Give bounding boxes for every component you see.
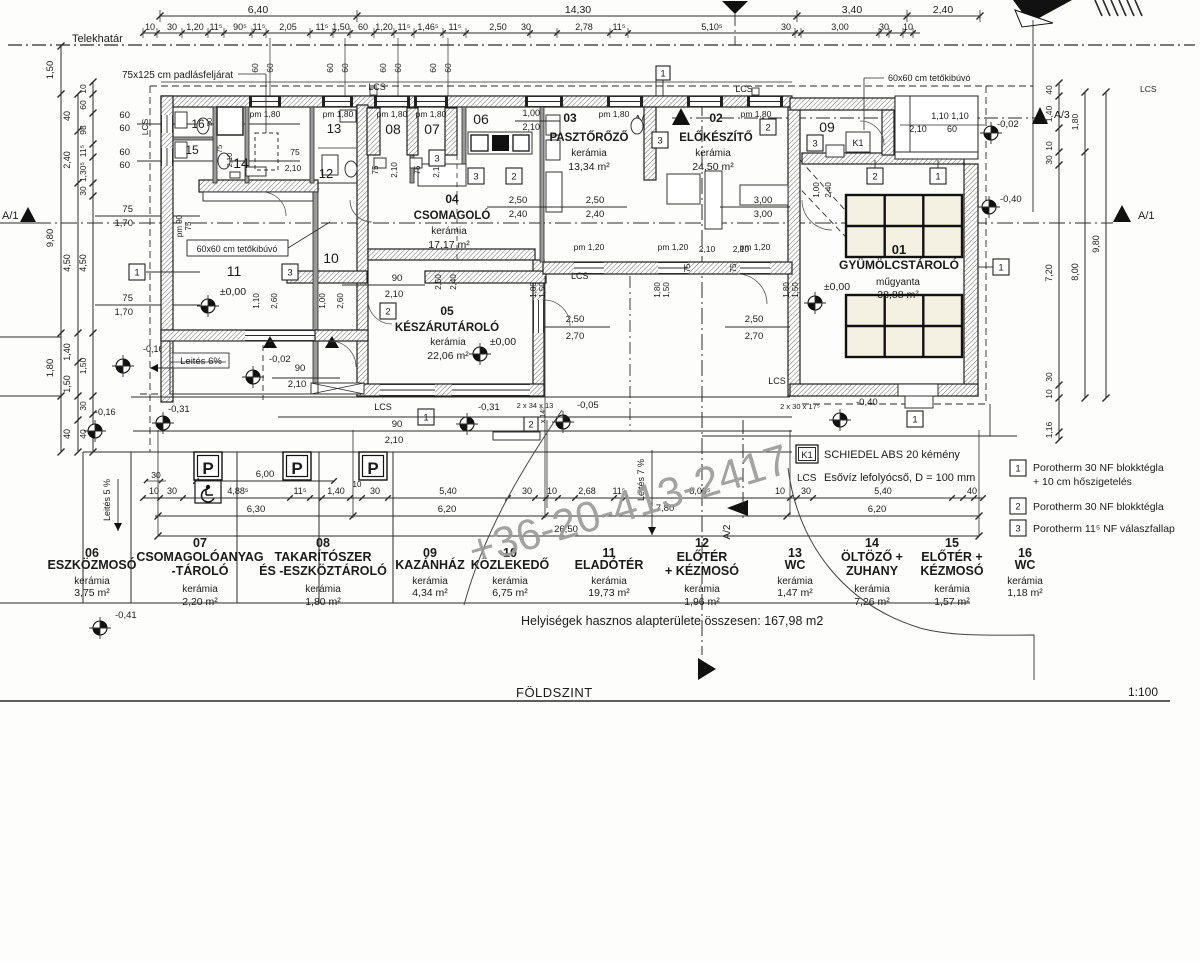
- svg-text:2,70: 2,70: [566, 331, 585, 342]
- svg-text:2: 2: [528, 419, 533, 430]
- svg-text:4,34 m²: 4,34 m²: [412, 587, 448, 599]
- svg-text:-0,02: -0,02: [269, 354, 291, 365]
- svg-text:6,40: 6,40: [248, 4, 269, 16]
- svg-text:12: 12: [319, 166, 333, 181]
- svg-text:1,96 m²: 1,96 m²: [684, 596, 720, 608]
- svg-text:14: 14: [865, 536, 879, 550]
- svg-text:11: 11: [227, 263, 242, 279]
- svg-text:Esővíz lefolyócső, D = 100 mm: Esővíz lefolyócső, D = 100 mm: [824, 472, 975, 484]
- svg-text:1,00: 1,00: [318, 293, 327, 309]
- svg-text:P: P: [202, 459, 213, 478]
- svg-text:±0,00: ±0,00: [490, 336, 516, 348]
- svg-text:90: 90: [392, 419, 403, 430]
- svg-text:műgyanta: műgyanta: [876, 277, 920, 288]
- svg-text:CSOMAGOLÓ: CSOMAGOLÓ: [414, 209, 491, 222]
- svg-text:06: 06: [473, 111, 489, 127]
- svg-text:11⁵: 11⁵: [78, 145, 88, 157]
- svg-text:60: 60: [119, 147, 130, 158]
- svg-text:30: 30: [1044, 372, 1054, 382]
- svg-text:10: 10: [353, 480, 362, 489]
- svg-text:2,20 m²: 2,20 m²: [182, 596, 218, 608]
- svg-text:15: 15: [945, 536, 959, 550]
- svg-text:1,57 m²: 1,57 m²: [934, 596, 970, 608]
- svg-text:-0,41: -0,41: [115, 610, 137, 621]
- svg-text:pm 1,80: pm 1,80: [416, 109, 447, 119]
- svg-text:2,50: 2,50: [489, 22, 507, 32]
- svg-text:5,10⁵: 5,10⁵: [701, 22, 723, 32]
- svg-text:10: 10: [547, 486, 557, 496]
- svg-text:pm 1,80: pm 1,80: [741, 109, 772, 119]
- svg-text:30: 30: [801, 486, 811, 496]
- svg-text:30: 30: [370, 486, 380, 496]
- svg-text:pm 1,80: pm 1,80: [323, 109, 354, 119]
- svg-text:30: 30: [167, 22, 177, 32]
- svg-text:P: P: [367, 459, 378, 478]
- svg-text:pm 1,20: pm 1,20: [574, 242, 605, 252]
- svg-text:kerámia: kerámia: [492, 576, 528, 587]
- svg-text:30: 30: [879, 22, 889, 32]
- svg-text:75: 75: [215, 145, 224, 153]
- svg-text:30: 30: [521, 22, 531, 32]
- svg-text:11⁵: 11⁵: [293, 486, 306, 496]
- svg-text:Porotherm 11⁵ NF válaszfallap: Porotherm 11⁵ NF válaszfallap: [1033, 523, 1175, 535]
- svg-text:2,70: 2,70: [745, 331, 764, 342]
- svg-text:2 x 34 x 13: 2 x 34 x 13: [517, 401, 554, 410]
- svg-text:14,30: 14,30: [565, 4, 591, 16]
- svg-text:4,50: 4,50: [62, 254, 72, 272]
- svg-text:LCS: LCS: [768, 376, 786, 386]
- svg-text:10: 10: [145, 22, 155, 32]
- svg-text:60x60 cm tetőkibúvó: 60x60 cm tetőkibúvó: [888, 73, 971, 83]
- svg-text:P: P: [291, 459, 302, 478]
- svg-text:3: 3: [812, 138, 817, 149]
- svg-text:11⁵: 11⁵: [397, 22, 410, 32]
- svg-text:1,20: 1,20: [186, 22, 204, 32]
- svg-text:11⁵: 11⁵: [209, 22, 222, 32]
- svg-text:30: 30: [781, 22, 791, 32]
- svg-text:ÖLTÖZŐ +: ÖLTÖZŐ +: [841, 549, 903, 564]
- svg-text:1,46⁵: 1,46⁵: [417, 22, 439, 32]
- svg-text:Porotherm 30 NF blokktégla: Porotherm 30 NF blokktégla: [1033, 501, 1164, 513]
- svg-text:K1: K1: [852, 138, 863, 148]
- svg-text:1,40: 1,40: [62, 343, 72, 361]
- svg-text:60: 60: [119, 123, 130, 134]
- svg-text:2: 2: [511, 171, 516, 182]
- svg-text:11⁵: 11⁵: [612, 22, 625, 32]
- svg-text:10: 10: [903, 22, 913, 32]
- svg-text:10: 10: [323, 250, 339, 266]
- svg-text:3: 3: [657, 135, 662, 146]
- svg-text:KÉSZÁRUTÁROLÓ: KÉSZÁRUTÁROLÓ: [395, 321, 499, 334]
- svg-text:LCS: LCS: [140, 118, 150, 135]
- svg-text:5,40: 5,40: [439, 486, 457, 496]
- svg-text:KAZÁNHÁZ: KAZÁNHÁZ: [395, 557, 465, 572]
- svg-text:09: 09: [819, 119, 835, 135]
- svg-text:6,30: 6,30: [247, 504, 266, 515]
- svg-text:TAKARÍTÓSZER: TAKARÍTÓSZER: [275, 549, 372, 564]
- svg-text:4,88⁵: 4,88⁵: [227, 486, 249, 496]
- svg-text:LCS: LCS: [1140, 84, 1157, 94]
- svg-text:-0,05: -0,05: [577, 400, 599, 411]
- svg-text:2,10: 2,10: [285, 163, 302, 173]
- svg-text:2,40: 2,40: [824, 182, 833, 198]
- svg-text:1,80: 1,80: [782, 282, 791, 298]
- svg-text:6,20: 6,20: [438, 504, 457, 515]
- svg-text:kerámia: kerámia: [695, 148, 731, 159]
- svg-text:Porotherm 30 NF blokktégla: Porotherm 30 NF blokktégla: [1033, 462, 1164, 474]
- svg-text:pm 1,80: pm 1,80: [377, 109, 408, 119]
- svg-text:10: 10: [149, 486, 159, 496]
- svg-text:1,70: 1,70: [115, 307, 134, 318]
- svg-text:13,34 m²: 13,34 m²: [568, 161, 610, 173]
- svg-text:Leités 5 %: Leités 5 %: [102, 479, 112, 521]
- svg-text:07: 07: [424, 121, 440, 137]
- svg-text:kerámia: kerámia: [182, 584, 218, 595]
- svg-text:10: 10: [1044, 141, 1054, 151]
- svg-text:A/2: A/2: [722, 524, 733, 539]
- svg-text:LCS: LCS: [571, 271, 589, 281]
- svg-text:2,40: 2,40: [449, 274, 458, 290]
- svg-text:3: 3: [287, 267, 292, 278]
- svg-text:2,10: 2,10: [733, 244, 750, 254]
- svg-text:60: 60: [947, 124, 957, 134]
- svg-text:kerámia: kerámia: [412, 576, 448, 587]
- svg-text:1,47 m²: 1,47 m²: [777, 587, 813, 599]
- svg-text:ELŐTÉR +: ELŐTÉR +: [921, 549, 982, 564]
- svg-text:90: 90: [392, 273, 403, 284]
- svg-text:1,50: 1,50: [45, 61, 56, 80]
- svg-text:1,00: 1,00: [522, 108, 540, 118]
- svg-text:6,20: 6,20: [868, 504, 887, 515]
- svg-text:±0,00: ±0,00: [824, 281, 850, 293]
- svg-text:1: 1: [1015, 463, 1020, 474]
- svg-text:K1: K1: [801, 450, 813, 461]
- svg-text:02: 02: [709, 111, 723, 125]
- svg-text:17,17 m²: 17,17 m²: [428, 239, 470, 251]
- svg-text:2,40: 2,40: [586, 209, 605, 220]
- svg-text:pm 1,80: pm 1,80: [599, 109, 630, 119]
- svg-text:1: 1: [134, 267, 139, 278]
- svg-text:60: 60: [250, 63, 260, 73]
- svg-text:LCS: LCS: [735, 84, 753, 94]
- svg-text:1,30⁵: 1,30⁵: [78, 162, 88, 182]
- svg-text:15: 15: [185, 143, 199, 157]
- svg-text:1,50: 1,50: [78, 357, 88, 374]
- svg-text:A/3: A/3: [1054, 109, 1070, 121]
- svg-text:10: 10: [1044, 389, 1054, 399]
- svg-text:2,50: 2,50: [566, 314, 585, 325]
- svg-text:-0,31: -0,31: [168, 404, 190, 415]
- svg-text:ÉS -ESZKÖZTÁROLÓ: ÉS -ESZKÖZTÁROLÓ: [259, 563, 387, 578]
- svg-text:2,50: 2,50: [745, 314, 764, 325]
- svg-text:±0,00: ±0,00: [220, 286, 246, 298]
- svg-text:75: 75: [413, 165, 422, 174]
- svg-text:LCS: LCS: [797, 473, 817, 484]
- svg-text:1:100: 1:100: [1128, 685, 1158, 699]
- svg-text:07: 07: [193, 536, 207, 550]
- svg-text:1,40: 1,40: [327, 486, 345, 496]
- svg-text:60: 60: [325, 63, 335, 73]
- svg-text:kerámia: kerámia: [431, 226, 467, 237]
- svg-text:1: 1: [935, 171, 940, 182]
- svg-text:08: 08: [316, 536, 330, 550]
- svg-text:1,50: 1,50: [538, 282, 547, 298]
- svg-text:11⁵: 11⁵: [315, 22, 328, 32]
- svg-text:19,73 m²: 19,73 m²: [588, 587, 630, 599]
- svg-text:75: 75: [290, 147, 300, 157]
- svg-text:9,80: 9,80: [1091, 235, 1101, 253]
- svg-text:kerámia: kerámia: [571, 148, 607, 159]
- svg-text:Leités 6%: Leités 6%: [180, 356, 222, 367]
- svg-text:2,10: 2,10: [385, 289, 404, 300]
- svg-text:2,40: 2,40: [62, 151, 72, 169]
- svg-text:2,10: 2,10: [909, 124, 927, 134]
- svg-text:ELŐTÉR: ELŐTÉR: [677, 549, 728, 564]
- svg-text:1,10: 1,10: [931, 111, 949, 121]
- svg-text:75x125 cm padlásfeljárat: 75x125 cm padlásfeljárat: [122, 70, 233, 81]
- svg-text:98: 98: [78, 125, 88, 135]
- svg-text:2,60: 2,60: [270, 293, 279, 309]
- svg-text:1,50: 1,50: [791, 282, 800, 298]
- svg-text:40: 40: [62, 111, 72, 121]
- svg-text:3,40: 3,40: [842, 4, 863, 16]
- svg-text:+ 10 cm hőszigetelés: + 10 cm hőszigetelés: [1033, 476, 1132, 488]
- svg-text:x 14⁵: x 14⁵: [540, 407, 547, 423]
- svg-text:2 x 30 x 17⁵: 2 x 30 x 17⁵: [780, 402, 820, 411]
- svg-text:30: 30: [1044, 155, 1054, 165]
- svg-text:2,50: 2,50: [509, 195, 528, 206]
- svg-text:WC: WC: [785, 558, 806, 572]
- svg-text:75: 75: [683, 263, 692, 272]
- svg-text:30: 30: [522, 486, 532, 496]
- svg-text:Helyiségek hasznos alapterület: Helyiségek hasznos alapterülete összesen…: [521, 614, 823, 628]
- svg-text:4,50: 4,50: [78, 254, 88, 272]
- svg-text:40: 40: [78, 429, 88, 439]
- svg-text:2,40: 2,40: [933, 4, 954, 16]
- svg-text:3,00: 3,00: [754, 195, 773, 206]
- svg-text:1,50: 1,50: [662, 282, 671, 298]
- svg-text:2,05: 2,05: [279, 22, 297, 32]
- svg-text:12: 12: [695, 536, 709, 550]
- svg-text:1: 1: [998, 262, 1003, 273]
- svg-text:5,40: 5,40: [874, 486, 892, 496]
- svg-text:90: 90: [295, 363, 306, 374]
- svg-text:kerámia: kerámia: [854, 584, 890, 595]
- svg-text:60: 60: [119, 110, 130, 121]
- svg-text:ELADÓTÉR: ELADÓTÉR: [575, 557, 644, 572]
- svg-text:ZUHANY: ZUHANY: [846, 564, 899, 578]
- svg-text:3: 3: [1015, 523, 1020, 534]
- svg-text:30: 30: [167, 486, 177, 496]
- svg-text:kerámia: kerámia: [74, 576, 110, 587]
- svg-text:7,20: 7,20: [1044, 264, 1054, 282]
- svg-text:30: 30: [78, 186, 88, 196]
- svg-text:2,50: 2,50: [586, 195, 605, 206]
- svg-text:2,50: 2,50: [434, 274, 443, 290]
- svg-text:+ KÉZMOSÓ: + KÉZMOSÓ: [665, 563, 739, 578]
- svg-text:LCS: LCS: [368, 82, 386, 92]
- svg-text:2: 2: [385, 306, 390, 317]
- svg-text:40: 40: [62, 429, 72, 439]
- svg-text:08: 08: [385, 121, 401, 137]
- svg-text:2: 2: [765, 122, 770, 133]
- svg-text:kerámia: kerámia: [430, 337, 466, 348]
- svg-text:kerámia: kerámia: [1007, 576, 1043, 587]
- svg-text:2: 2: [1015, 501, 1020, 512]
- svg-text:3: 3: [473, 171, 478, 182]
- svg-text:CSOMAGOLÓANYAG: CSOMAGOLÓANYAG: [136, 549, 263, 564]
- svg-text:A/1: A/1: [2, 210, 19, 222]
- svg-text:75: 75: [371, 165, 380, 174]
- svg-text:2,60: 2,60: [336, 293, 345, 309]
- svg-text:05: 05: [440, 304, 454, 318]
- svg-text:6,75 m²: 6,75 m²: [492, 587, 528, 599]
- svg-text:kerámia: kerámia: [934, 584, 970, 595]
- svg-text:1,10: 1,10: [252, 293, 261, 309]
- svg-text:60: 60: [378, 63, 388, 73]
- svg-text:60: 60: [428, 63, 438, 73]
- svg-text:75: 75: [122, 204, 133, 215]
- svg-text:01: 01: [892, 242, 906, 257]
- svg-text:22,06 m²: 22,06 m²: [427, 350, 469, 362]
- svg-text:-TÁROLÓ: -TÁROLÓ: [172, 563, 229, 578]
- svg-text:-0,40: -0,40: [1000, 194, 1022, 205]
- svg-text:2,10: 2,10: [522, 122, 540, 132]
- svg-text:2,10: 2,10: [225, 153, 234, 168]
- svg-text:50: 50: [205, 118, 214, 126]
- svg-text:60x60 cm tetőkibúvó: 60x60 cm tetőkibúvó: [197, 244, 278, 254]
- svg-text:-0,02: -0,02: [997, 119, 1019, 130]
- svg-text:3,75 m²: 3,75 m²: [74, 587, 110, 599]
- svg-text:1,50: 1,50: [62, 375, 72, 393]
- svg-text:SCHIEDEL ABS 20 kémény: SCHIEDEL ABS 20 kémény: [824, 449, 960, 461]
- svg-text:kerámia: kerámia: [684, 584, 720, 595]
- svg-text:1,00: 1,00: [812, 182, 821, 198]
- svg-text:2,10: 2,10: [390, 162, 399, 178]
- svg-text:24,50 m²: 24,50 m²: [692, 161, 734, 173]
- svg-text:2,78: 2,78: [575, 22, 593, 32]
- svg-text:40: 40: [1044, 85, 1054, 95]
- svg-text:1,80: 1,80: [1070, 113, 1080, 130]
- svg-text:pm 1,80: pm 1,80: [250, 109, 281, 119]
- svg-text:04: 04: [445, 192, 459, 206]
- svg-text:1: 1: [660, 68, 665, 79]
- svg-text:2,10: 2,10: [288, 379, 307, 390]
- svg-text:13: 13: [327, 121, 341, 136]
- svg-text:1: 1: [423, 412, 428, 423]
- svg-text:pm 90: pm 90: [175, 214, 184, 237]
- svg-text:1,16: 1,16: [1044, 421, 1054, 438]
- svg-text:WC: WC: [1015, 558, 1036, 572]
- svg-text:03: 03: [563, 111, 577, 125]
- svg-text:75: 75: [184, 221, 193, 230]
- svg-text:2,40: 2,40: [509, 209, 528, 220]
- svg-text:16: 16: [191, 117, 205, 131]
- svg-text:-0,31: -0,31: [478, 402, 500, 413]
- svg-text:-0,16: -0,16: [95, 407, 116, 417]
- svg-text:1,20: 1,20: [375, 22, 393, 32]
- svg-text:9,80: 9,80: [45, 229, 56, 248]
- svg-text:40: 40: [967, 486, 977, 496]
- svg-text:pm 1,20: pm 1,20: [658, 242, 689, 252]
- svg-text:60: 60: [78, 100, 88, 110]
- svg-text:3,00: 3,00: [754, 209, 773, 220]
- svg-text:A/1: A/1: [1138, 210, 1155, 222]
- svg-text:3,00: 3,00: [831, 22, 849, 32]
- svg-text:30: 30: [78, 401, 88, 411]
- svg-text:1,80: 1,80: [45, 359, 56, 378]
- svg-text:PASZTŐRŐZŐ: PASZTŐRŐZŐ: [549, 131, 628, 144]
- svg-text:75: 75: [122, 293, 133, 304]
- svg-text:ESZKÖZMOSÓ: ESZKÖZMOSÓ: [48, 557, 137, 572]
- svg-text:kerámia: kerámia: [305, 584, 341, 595]
- svg-text:60: 60: [119, 160, 130, 171]
- svg-text:2,10: 2,10: [699, 244, 716, 254]
- svg-text:10: 10: [78, 84, 88, 94]
- svg-text:10: 10: [775, 486, 785, 496]
- svg-text:1,80 m²: 1,80 m²: [305, 596, 341, 608]
- svg-text:1,70: 1,70: [115, 218, 134, 229]
- svg-text:kerámia: kerámia: [777, 576, 813, 587]
- svg-text:60: 60: [358, 22, 368, 32]
- svg-text:Telekhatár: Telekhatár: [72, 33, 123, 45]
- svg-text:1,80: 1,80: [529, 282, 538, 298]
- svg-text:75: 75: [729, 263, 738, 272]
- svg-text:1: 1: [912, 414, 917, 425]
- svg-text:1,10: 1,10: [951, 111, 969, 121]
- svg-text:90⁵: 90⁵: [233, 22, 247, 32]
- svg-text:11⁵: 11⁵: [448, 22, 461, 32]
- svg-text:38,88 m²: 38,88 m²: [877, 289, 919, 301]
- svg-text:ELŐKÉSZÍTŐ: ELŐKÉSZÍTŐ: [679, 131, 753, 144]
- svg-text:6,00: 6,00: [256, 469, 275, 480]
- svg-text:kerámia: kerámia: [591, 576, 627, 587]
- svg-text:1,80: 1,80: [653, 282, 662, 298]
- svg-text:GYÜMÖLCSTÁROLÓ: GYÜMÖLCSTÁROLÓ: [839, 257, 959, 272]
- svg-text:14: 14: [233, 155, 249, 171]
- svg-text:LCS: LCS: [374, 402, 392, 412]
- svg-text:FÖLDSZINT: FÖLDSZINT: [516, 685, 593, 700]
- svg-text:-0,40: -0,40: [856, 397, 878, 408]
- svg-text:3: 3: [434, 153, 439, 164]
- svg-text:2,10: 2,10: [385, 435, 404, 446]
- svg-text:2: 2: [872, 171, 877, 182]
- svg-text:KÉZMOSÓ: KÉZMOSÓ: [920, 563, 983, 578]
- svg-text:1,18 m²: 1,18 m²: [1007, 587, 1043, 599]
- svg-text:30: 30: [151, 470, 161, 480]
- svg-text:8,00: 8,00: [1070, 263, 1080, 281]
